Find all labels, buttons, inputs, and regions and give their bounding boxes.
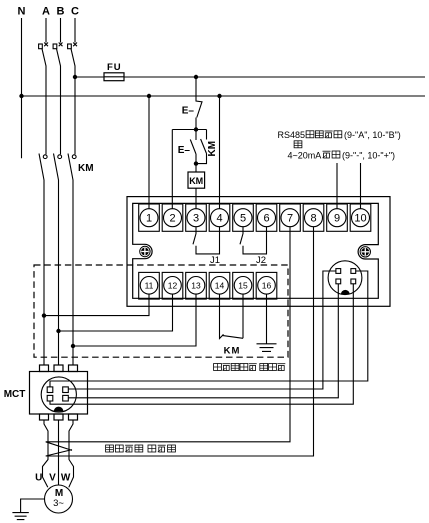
svg-text:8: 8 (310, 212, 316, 224)
svg-text:KM: KM (78, 163, 94, 174)
svg-text:A: A (42, 6, 50, 18)
svg-text:V: V (49, 472, 56, 483)
svg-text:RS485: RS485 (278, 130, 306, 140)
svg-text:J1: J1 (210, 255, 220, 266)
svg-text:6: 6 (263, 212, 269, 224)
svg-text:2: 2 (169, 212, 175, 224)
svg-text:11: 11 (145, 280, 154, 290)
svg-text:E–: E– (182, 106, 195, 117)
svg-text:3: 3 (193, 212, 199, 224)
svg-text:9: 9 (334, 212, 340, 224)
svg-text:J2: J2 (256, 255, 266, 266)
svg-text:4: 4 (216, 212, 222, 224)
svg-text:1: 1 (146, 212, 152, 224)
svg-text:MCT: MCT (4, 389, 26, 400)
svg-text:13: 13 (191, 280, 201, 290)
svg-text:E–: E– (178, 145, 191, 156)
svg-text:B: B (57, 6, 65, 18)
svg-text:KM: KM (224, 346, 241, 357)
svg-text:12: 12 (168, 280, 178, 290)
svg-text:U: U (35, 472, 42, 483)
svg-text:FU: FU (107, 62, 122, 73)
svg-text:KM: KM (207, 141, 218, 157)
svg-text:14: 14 (215, 280, 225, 290)
svg-text:5: 5 (240, 212, 246, 224)
svg-text:3~: 3~ (53, 498, 64, 509)
svg-text:10: 10 (354, 212, 366, 224)
svg-text:KM: KM (189, 176, 203, 186)
svg-text:W: W (61, 472, 71, 483)
svg-text:N: N (18, 6, 26, 18)
svg-text:16: 16 (262, 280, 272, 290)
svg-text:(9-"A", 10-"B"): (9-"A", 10-"B") (344, 130, 401, 140)
svg-text:4~20mA: 4~20mA (288, 151, 322, 161)
svg-text:7: 7 (287, 212, 293, 224)
svg-text:15: 15 (238, 280, 248, 290)
svg-text:(9-"-", 10-"+"): (9-"-", 10-"+") (342, 151, 395, 161)
svg-text:C: C (71, 6, 79, 18)
